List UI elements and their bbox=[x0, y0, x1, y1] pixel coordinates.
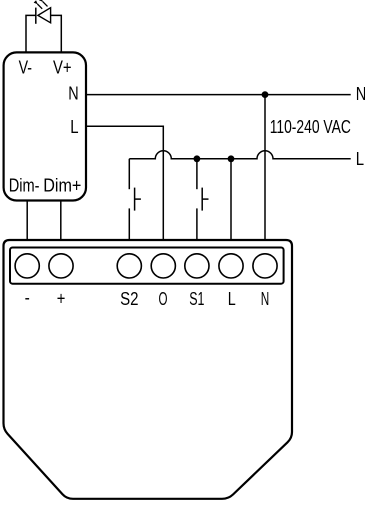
svg-text:S1: S1 bbox=[189, 288, 204, 309]
terminal plus bbox=[49, 254, 73, 278]
wire driver L to Shelly O terminal bbox=[86, 126, 163, 241]
LED arrow 1 bbox=[37, 4, 42, 9]
terminal N bbox=[253, 254, 277, 278]
switch SW1 bbox=[135, 188, 141, 211]
switch SW2 bbox=[202, 188, 208, 211]
svg-text:+: + bbox=[57, 288, 66, 309]
svg-text:L: L bbox=[70, 117, 78, 137]
wire L to switch SW2 bbox=[196, 159, 198, 189]
wire Dim- to Shelly minus terminal bbox=[26, 201, 28, 242]
svg-text:Dim-: Dim- bbox=[9, 175, 40, 195]
node L junction bbox=[228, 155, 235, 162]
wire LED right lead (V+ leg) bbox=[51, 15, 62, 52]
wire N mains horizontal bbox=[86, 94, 351, 96]
svg-text:N: N bbox=[261, 288, 270, 309]
terminal strip bbox=[10, 248, 284, 284]
wire N drop to Shelly N terminal bbox=[264, 95, 266, 241]
svg-text:L: L bbox=[356, 149, 364, 169]
LED triangle bbox=[38, 8, 51, 23]
LED D1 bbox=[36, 2, 51, 24]
svg-text:L: L bbox=[228, 288, 236, 309]
terminal S2 bbox=[117, 254, 141, 278]
wire Dim+ to Shelly plus terminal bbox=[60, 201, 62, 242]
LED arrow 2 bbox=[43, 2, 48, 7]
svg-text:N: N bbox=[68, 83, 78, 103]
terminal O bbox=[151, 254, 175, 278]
svg-text:110-240 VAC: 110-240 VAC bbox=[270, 116, 351, 137]
node S1 junction bbox=[194, 155, 201, 162]
terminal minus bbox=[15, 254, 39, 278]
svg-text:V+: V+ bbox=[53, 58, 72, 78]
wire switch SW1 to S2 terminal bbox=[128, 208, 130, 241]
svg-text:S2: S2 bbox=[120, 288, 138, 309]
wire LED left lead (V- leg) bbox=[26, 15, 36, 52]
LED driver box U1 bbox=[4, 52, 86, 200]
svg-text:-: - bbox=[25, 287, 30, 308]
wire L mains horizontal with jumps bbox=[129, 151, 350, 159]
wire switch SW2 to S1 terminal bbox=[196, 208, 198, 241]
LED cathode bar bbox=[35, 8, 37, 24]
svg-text:O: O bbox=[159, 288, 168, 309]
wire L junction to Shelly L terminal bbox=[230, 159, 232, 241]
svg-text:N: N bbox=[356, 84, 365, 104]
Shelly dimmer body U2 bbox=[4, 240, 293, 499]
svg-text:V-: V- bbox=[19, 58, 32, 78]
terminal L bbox=[219, 254, 243, 278]
wire L to switch SW1 bbox=[128, 159, 130, 189]
node N junction bbox=[262, 91, 269, 98]
svg-text:Dim+: Dim+ bbox=[43, 175, 81, 195]
terminal S1 bbox=[185, 254, 209, 278]
